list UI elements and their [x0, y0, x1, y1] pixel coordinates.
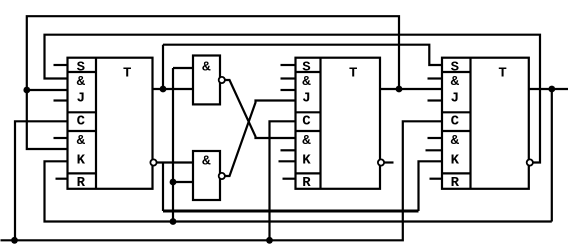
svg-text:K: K	[451, 152, 460, 168]
svg-text:&: &	[77, 74, 86, 90]
wire NAND G2 lower input	[173, 181, 193, 183]
svg-text:J: J	[302, 91, 310, 107]
wire U1 C input	[15, 121, 68, 240]
NAND gate G1 body	[193, 56, 220, 105]
wire NAND G1 upper input	[173, 67, 193, 69]
svg-text:T: T	[349, 66, 357, 82]
stub U2 R input	[283, 178, 296, 180]
NAND G2 output bubble	[219, 173, 225, 179]
NAND G1 output bubble	[219, 77, 225, 83]
stub U2 J-gate input	[281, 77, 296, 79]
node U3.Q output branch	[548, 86, 555, 93]
wire NAND G1 output to U2.K (crossover)	[225, 80, 296, 138]
svg-text:&: &	[302, 74, 311, 90]
svg-text:&: &	[202, 60, 211, 76]
flip-flop U2 pin labels	[302, 59, 311, 191]
svg-text:K: K	[77, 152, 86, 168]
wire branch to U1 J gate	[27, 89, 68, 91]
stub U2 S input	[281, 64, 296, 66]
svg-text:&: &	[202, 154, 211, 170]
wire U1.Q top to U3.S	[163, 45, 442, 65]
wire U1.Q up vertical	[162, 45, 164, 89]
wire U3.Qbar feedback to U1.J	[45, 35, 541, 163]
stub U2 J-gate input 2	[281, 89, 296, 91]
stub U3 R input	[430, 178, 443, 180]
wire U1.Qbar to NAND G2 upper input	[157, 161, 194, 163]
wire U3.Q down right side	[551, 89, 553, 222]
stub U1 R input	[56, 178, 68, 180]
svg-text:C: C	[302, 113, 311, 129]
wire U3.Q output row	[529, 88, 568, 90]
stub U3 K-gate input	[428, 137, 443, 139]
svg-text:J: J	[77, 91, 85, 107]
svg-text:R: R	[451, 175, 460, 191]
wire U2.Qbar output stub	[384, 161, 394, 163]
node clock at U2.C	[266, 237, 273, 244]
wire U3.Q to NAND inputs vertical	[172, 68, 174, 222]
wire U2 C input	[270, 121, 296, 240]
NAND gate G2 body	[193, 151, 220, 200]
svg-text:R: R	[77, 175, 86, 191]
node U2.Q output branch	[396, 86, 403, 93]
stub U2 K-gate input	[281, 149, 296, 151]
node U2.Q branch	[23, 87, 30, 94]
flip-flop U3 body	[442, 58, 529, 189]
wire U1.Qbar riser to U3.K	[419, 161, 443, 211]
svg-text:&: &	[302, 133, 311, 149]
wire U1.Q to NAND G1 input	[153, 88, 194, 90]
svg-text:T: T	[498, 66, 506, 82]
svg-text:K: K	[302, 152, 311, 168]
svg-text:R: R	[302, 175, 311, 191]
stub U2 K input	[279, 160, 296, 162]
svg-text:T: T	[123, 66, 131, 82]
wire NAND G2 output to U2.J (crossover)	[225, 101, 296, 177]
stub U3 J input	[428, 99, 443, 101]
U1 inverted output bubble	[150, 159, 156, 165]
svg-text:&: &	[451, 74, 460, 90]
svg-text:C: C	[451, 113, 460, 129]
flip-flop U1 pin labels	[77, 59, 86, 191]
flip-flop U3 pin labels	[451, 59, 460, 191]
node clock at U1.C	[11, 237, 18, 244]
stub U3 J-gate input	[428, 77, 443, 79]
wire U2.Q to U3.J	[380, 88, 442, 90]
node NAND G2 input branch	[170, 179, 177, 186]
wire U1.Qbar bottom rail	[163, 210, 419, 213]
U2 inverted output bubble	[378, 159, 384, 165]
stub U1 K-gate input	[54, 137, 68, 139]
stub U1 J input	[54, 99, 68, 101]
svg-text:C: C	[77, 113, 86, 129]
flip-flop U2 body	[296, 58, 381, 189]
node U3.Q rail branch	[170, 218, 177, 225]
svg-text:&: &	[77, 133, 86, 149]
svg-text:&: &	[451, 133, 460, 149]
wire clock rail from input to C pins	[1, 121, 443, 240]
svg-text:J: J	[451, 91, 459, 107]
wire U3.Q bottom rail	[45, 161, 552, 221]
stub U3 K-gate input 2	[426, 149, 443, 151]
node U1.Q branch	[160, 86, 167, 93]
U3 inverted output bubble	[527, 159, 533, 165]
stub U1 S input	[54, 64, 68, 66]
wire U2.Q feedback to U1 J/K gates	[27, 16, 399, 149]
wire U1.Qbar down vertical	[162, 163, 164, 212]
flip-flop U1 body	[68, 58, 153, 189]
